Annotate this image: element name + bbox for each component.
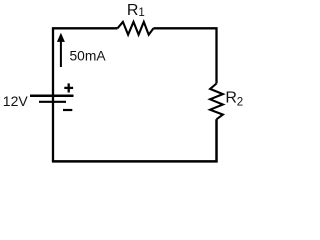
svg-text:R: R (225, 90, 237, 107)
svg-text:1: 1 (138, 7, 144, 19)
wire loop (left, top, right, bottom segments) (53, 28, 118, 161)
svg-text:2: 2 (237, 97, 243, 109)
label R1 (127, 2, 145, 19)
plus polarity mark (64, 83, 73, 92)
label R2 (225, 90, 243, 109)
current arrow (50mA, pointing up) (57, 33, 65, 67)
wire right-bottom and bottom (52, 119, 217, 161)
svg-text:R: R (127, 2, 139, 19)
battery V1 top plate (long, +) (30, 94, 74, 97)
svg-text:50mA: 50mA (70, 49, 107, 64)
resistor R2 (210, 84, 223, 120)
svg-text:12V: 12V (3, 93, 29, 109)
minus polarity mark (63, 109, 72, 111)
resistor R1 (118, 22, 154, 35)
battery V1 bottom plate (short, -) (39, 101, 66, 103)
wire top-right (154, 28, 217, 83)
